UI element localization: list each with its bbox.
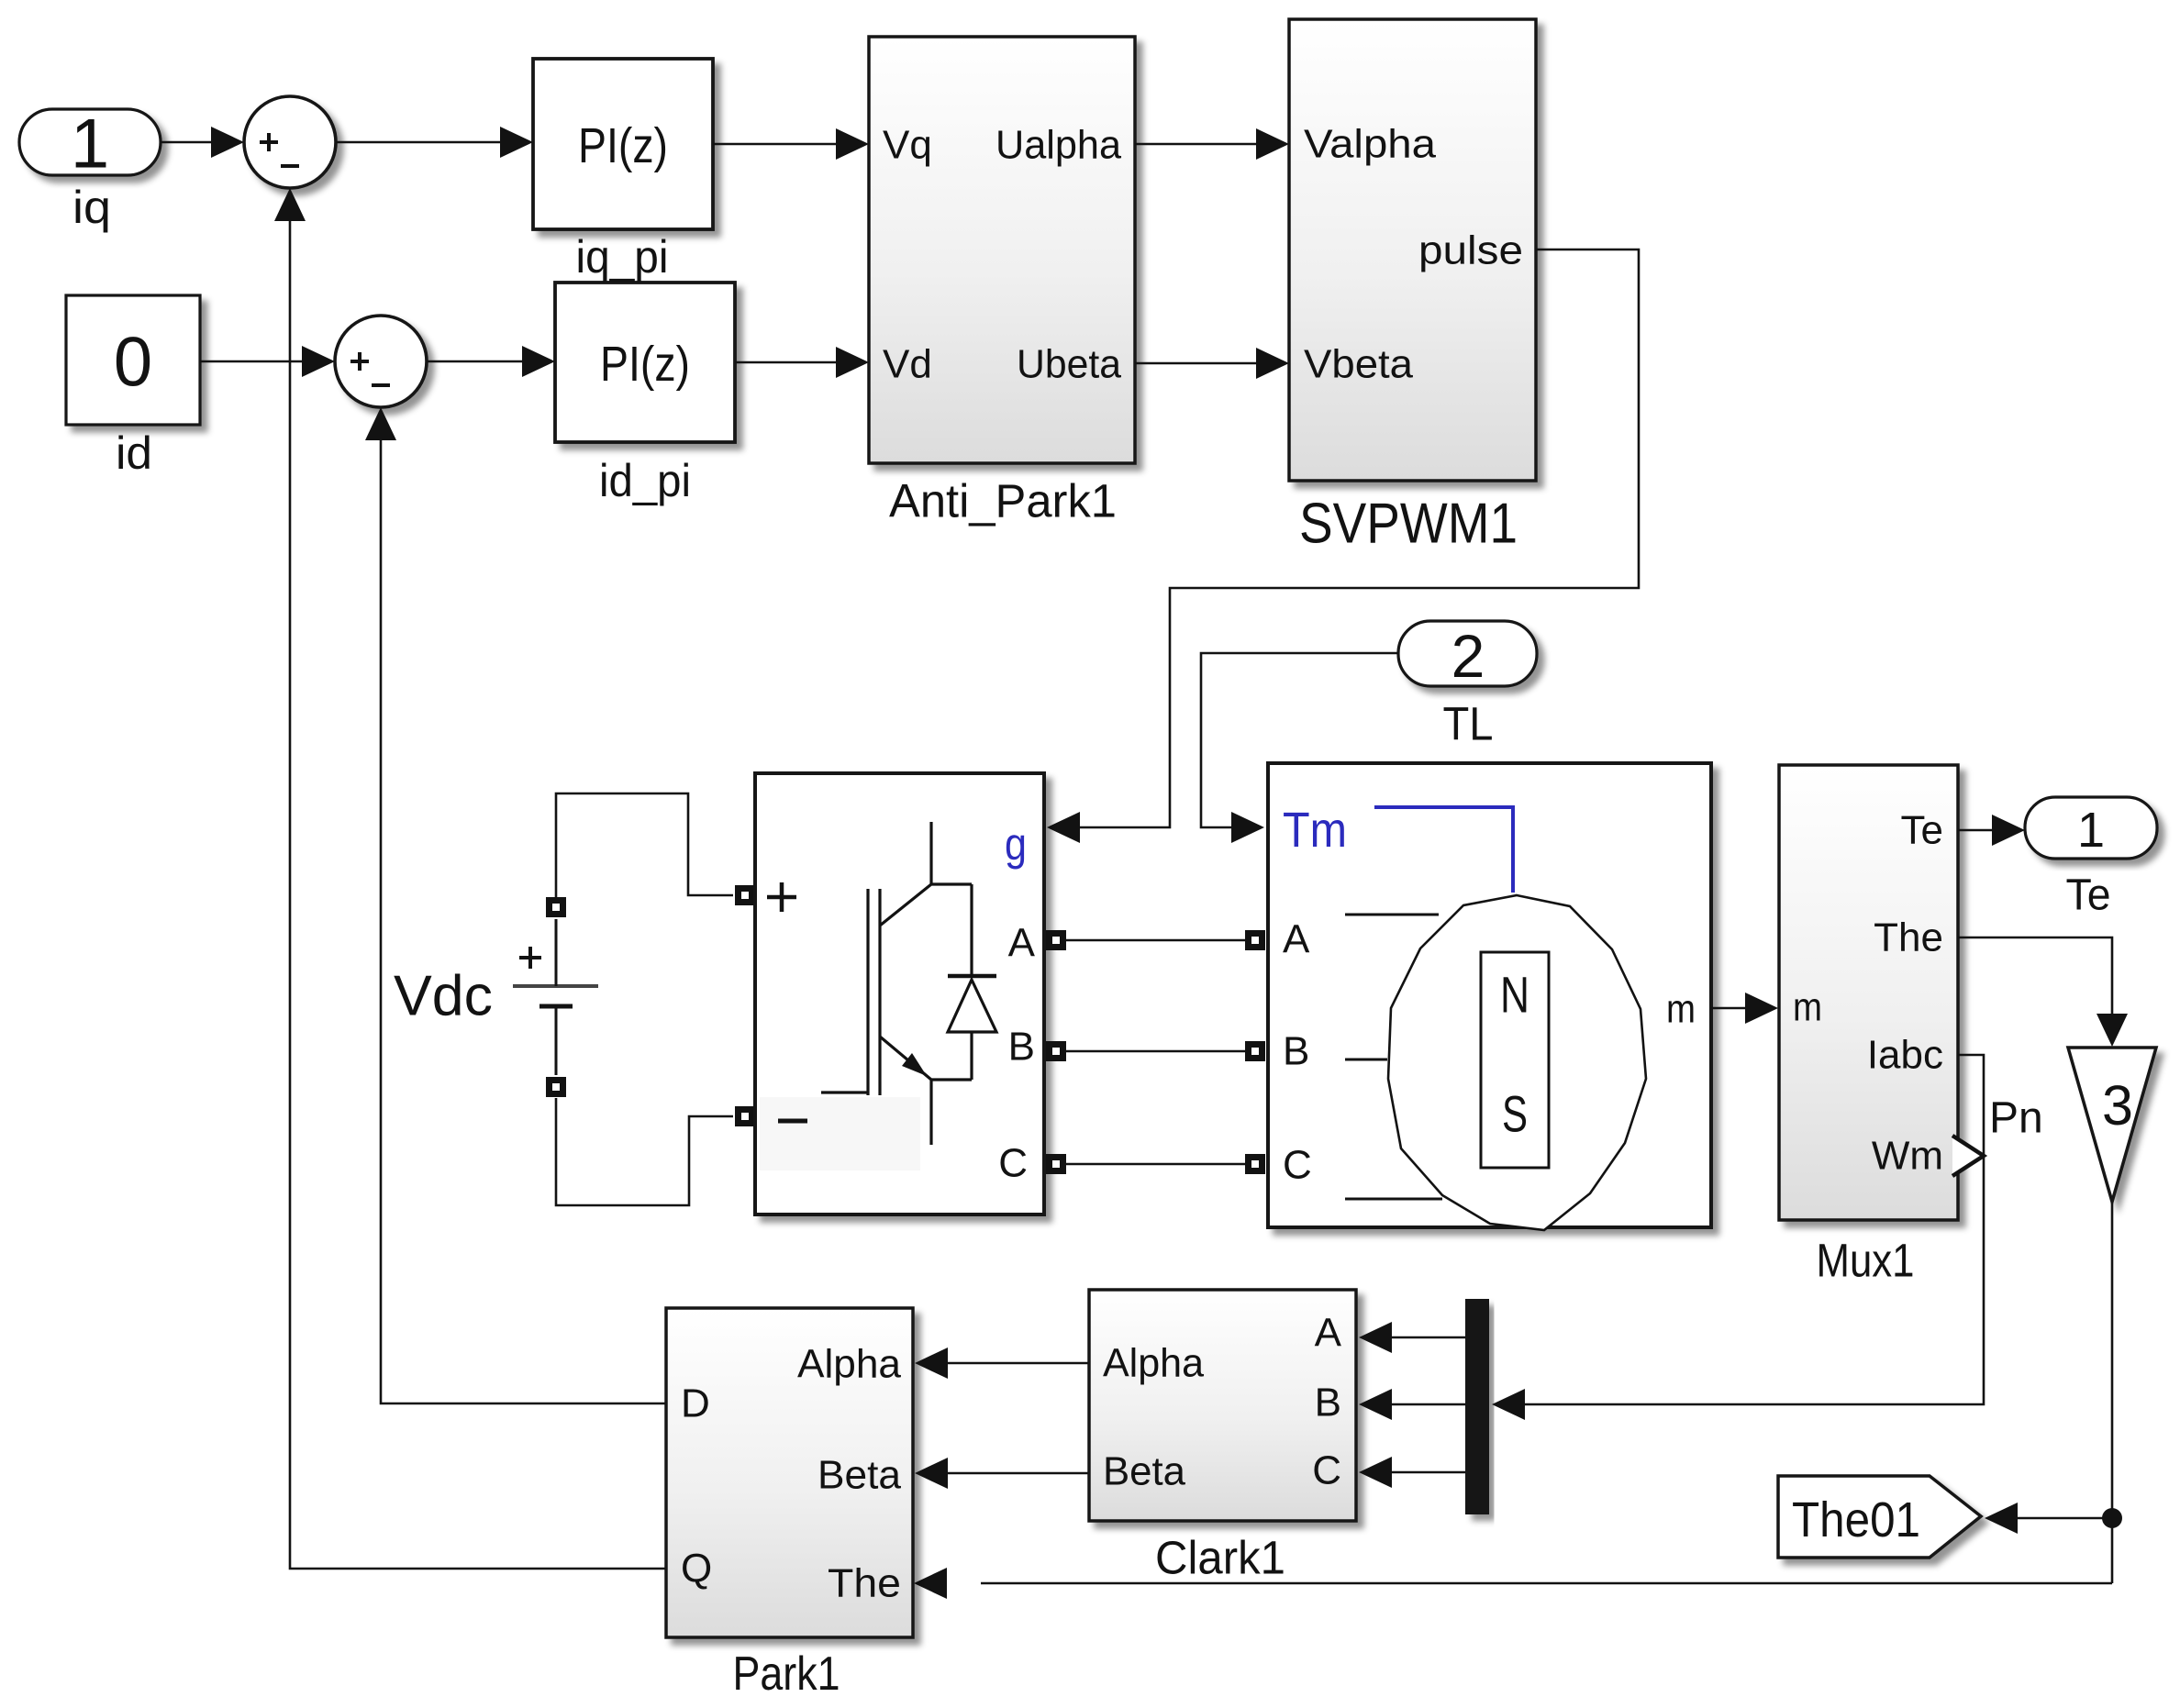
wire sum1 to iq_pi xyxy=(336,141,501,144)
port square inverter + xyxy=(735,885,755,905)
PMSM motor block xyxy=(1268,763,1711,1227)
wire m to Mux1 xyxy=(1711,1007,1745,1010)
battery plus sign xyxy=(519,947,541,969)
wire feedback D to sum2 xyxy=(381,440,667,1403)
wire gain output down xyxy=(2111,1202,2114,1583)
arrowhead into Clark A xyxy=(1359,1322,1392,1353)
svg-text:S: S xyxy=(1502,1085,1528,1143)
svg-text:Vdc: Vdc xyxy=(394,965,493,1028)
arrowhead into sum2 minus xyxy=(365,407,396,440)
arrowhead into g xyxy=(1047,812,1080,843)
svg-text:Iabc: Iabc xyxy=(1867,1033,1943,1078)
inverter highlight patch xyxy=(760,1097,920,1170)
IGBT transistor symbol xyxy=(821,822,972,1145)
arrowhead into sum2 xyxy=(302,346,335,377)
subsystem SVPWM1 xyxy=(1289,19,1536,481)
arrowhead into Park Beta xyxy=(915,1458,948,1489)
svg-text:Beta: Beta xyxy=(1103,1449,1186,1494)
gain block 3 xyxy=(2068,1048,2156,1202)
arrowhead into Clark C xyxy=(1359,1457,1392,1488)
inverter minus label xyxy=(778,1119,807,1124)
arrowhead into Vd xyxy=(836,347,869,378)
svg-text:Ubeta: Ubeta xyxy=(1017,342,1122,387)
svg-text:PI(z): PI(z) xyxy=(578,118,668,173)
motor rotor circle xyxy=(1388,895,1646,1230)
arrowhead into sum1 xyxy=(211,127,244,158)
wire The to gain xyxy=(1958,937,2112,1014)
sum junction sum2 xyxy=(335,316,427,407)
svg-text:pulse: pulse xyxy=(1418,228,1523,273)
svg-text:Tm: Tm xyxy=(1283,803,1347,858)
svg-text:3: 3 xyxy=(2102,1074,2133,1137)
svg-text:Anti_Park1: Anti_Park1 xyxy=(889,475,1117,527)
wire feedback Q to sum1 xyxy=(290,221,667,1569)
arrowhead into outport Te xyxy=(1992,815,2025,846)
svg-text:C: C xyxy=(998,1141,1028,1186)
svg-text:Wm: Wm xyxy=(1872,1134,1943,1179)
svg-text:m: m xyxy=(1666,987,1696,1032)
svg-text:The01: The01 xyxy=(1792,1492,1920,1547)
svg-text:Valpha: Valpha xyxy=(1304,122,1437,167)
motor blue bracket wire xyxy=(1374,807,1513,893)
port square inverter A xyxy=(1046,930,1066,950)
svg-text:id: id xyxy=(116,427,152,479)
wire battery- to inverter- xyxy=(556,1098,733,1205)
svg-text:iq_pi: iq_pi xyxy=(576,231,669,283)
inport 2 TL xyxy=(1398,621,1537,686)
wire demux to Clark B xyxy=(1392,1403,1465,1406)
battery leads xyxy=(555,919,558,1075)
svg-text:1: 1 xyxy=(2077,803,2105,858)
svg-text:Pn: Pn xyxy=(1989,1094,2043,1143)
freewheel diode D1 xyxy=(970,884,973,1080)
outport 1 Te xyxy=(2025,797,2157,859)
bus selector Mux1 xyxy=(1779,765,1958,1220)
svg-text:D: D xyxy=(681,1381,710,1426)
wire sum2 to id_pi xyxy=(427,360,523,363)
wire The feedback to Park1 xyxy=(981,1582,2112,1585)
battery long plate xyxy=(513,984,598,988)
svg-text:N: N xyxy=(1500,966,1529,1024)
subsystem Park1 xyxy=(666,1308,913,1637)
wire junction to The01 xyxy=(2018,1517,2110,1520)
wire phase A xyxy=(1066,939,1245,942)
port square motor B xyxy=(1245,1041,1265,1061)
port square inverter C xyxy=(1046,1154,1066,1174)
wire Clark Beta to Park Beta xyxy=(948,1472,1089,1475)
wire Clark Alpha to Park Alpha xyxy=(948,1362,1089,1365)
svg-text:1: 1 xyxy=(71,105,109,183)
svg-text:Alpha: Alpha xyxy=(1103,1341,1205,1386)
svg-text:Vq: Vq xyxy=(883,123,932,168)
svg-text:Vbeta: Vbeta xyxy=(1304,342,1414,387)
svg-text:0: 0 xyxy=(114,324,152,402)
sum junction sum1 xyxy=(244,96,336,188)
subsystem Anti_Park1 xyxy=(869,37,1135,463)
wire pulse to inverter g xyxy=(1080,250,1639,827)
arrowhead into demux xyxy=(1492,1389,1525,1420)
junction dot xyxy=(2102,1508,2122,1528)
wire phase C xyxy=(1066,1163,1245,1166)
arrowhead into Tm xyxy=(1231,812,1264,843)
port square inverter B xyxy=(1046,1041,1066,1061)
arrowhead into Clark B xyxy=(1359,1389,1392,1420)
PI controller iq_pi xyxy=(533,59,713,229)
port square battery - xyxy=(546,1077,566,1097)
svg-text:B: B xyxy=(1315,1381,1341,1425)
svg-text:C: C xyxy=(1312,1448,1341,1493)
svg-text:Alpha: Alpha xyxy=(797,1342,902,1387)
svg-text:Vd: Vd xyxy=(883,342,932,387)
battery short plate xyxy=(539,1004,573,1009)
svg-text:B: B xyxy=(1008,1025,1035,1070)
demux bar xyxy=(1465,1299,1489,1514)
svg-text:Beta: Beta xyxy=(817,1453,902,1498)
svg-text:A: A xyxy=(1283,917,1310,962)
IGBT emitter arrow xyxy=(902,1053,927,1076)
svg-text:Ualpha: Ualpha xyxy=(995,123,1122,168)
wire demux to Clark A xyxy=(1392,1336,1465,1339)
inverter plus label xyxy=(767,882,796,912)
arrowhead into Vbeta xyxy=(1256,348,1289,379)
svg-text:A: A xyxy=(1315,1311,1342,1356)
svg-text:PI(z): PI(z) xyxy=(600,337,690,392)
arrowhead into gain xyxy=(2097,1014,2128,1047)
svg-text:B: B xyxy=(1283,1029,1309,1074)
inverter bridge block xyxy=(755,773,1044,1214)
svg-text:Te: Te xyxy=(2066,871,2111,920)
svg-text:Mux1: Mux1 xyxy=(1817,1235,1915,1287)
constant id 0 xyxy=(66,295,200,425)
arrowhead into Valpha xyxy=(1256,128,1289,160)
PI controller id_pi xyxy=(555,283,735,442)
wire demux to Clark C xyxy=(1392,1471,1465,1474)
subsystem Clark1 xyxy=(1089,1290,1356,1521)
arrowhead into Mux1 m xyxy=(1745,993,1778,1024)
arrowhead into id_pi xyxy=(522,346,555,377)
svg-text:The: The xyxy=(828,1561,901,1606)
motor stator stubs xyxy=(1345,915,1442,1199)
unconnected Wm chevron xyxy=(1952,1136,1984,1176)
svg-text:iq: iq xyxy=(72,182,111,233)
wire Te to outport xyxy=(1958,829,1993,832)
wire iq_pi to Vq xyxy=(713,143,837,146)
arrowhead into iq_pi xyxy=(500,127,533,158)
port square inverter - xyxy=(735,1106,755,1126)
svg-text:Park1: Park1 xyxy=(733,1647,840,1701)
goto tag The01 xyxy=(1778,1476,1981,1558)
magnet bar xyxy=(1481,952,1549,1168)
wire battery+ to inverter+ xyxy=(556,793,733,897)
svg-text:id_pi: id_pi xyxy=(599,455,691,506)
svg-text:g: g xyxy=(1005,818,1027,870)
arrowhead into sum1 minus xyxy=(274,188,306,221)
svg-text:SVPWM1: SVPWM1 xyxy=(1299,493,1518,556)
svg-text:The: The xyxy=(1874,915,1943,960)
svg-text:2: 2 xyxy=(1451,622,1485,690)
svg-text:m: m xyxy=(1793,985,1822,1030)
svg-text:C: C xyxy=(1283,1143,1312,1188)
port square battery + xyxy=(546,897,566,917)
wire Ualpha to Valpha xyxy=(1135,143,1257,146)
wire id_pi to Vd xyxy=(735,361,837,364)
wire Iabc to demux xyxy=(1525,1055,1984,1404)
svg-text:TL: TL xyxy=(1443,698,1494,750)
wire iq to sum1 xyxy=(161,141,213,144)
arrowhead into The01 xyxy=(1985,1503,2018,1534)
wire 0 to sum2 xyxy=(200,360,303,363)
port square motor A xyxy=(1245,930,1265,950)
svg-text:Q: Q xyxy=(681,1547,712,1592)
svg-text:Clark1: Clark1 xyxy=(1155,1532,1285,1584)
inport 1 iq xyxy=(19,109,161,175)
wire phase B xyxy=(1066,1050,1245,1053)
svg-text:A: A xyxy=(1008,921,1036,966)
arrowhead into Park1 The xyxy=(914,1568,947,1599)
svg-text:Te: Te xyxy=(1901,808,1943,853)
arrowhead into Park Alpha xyxy=(915,1348,948,1379)
wire TL to Tm xyxy=(1201,653,1398,827)
wire Ubeta to Vbeta xyxy=(1135,362,1257,365)
arrowhead into Vq xyxy=(836,128,869,160)
port square motor C xyxy=(1245,1154,1265,1174)
